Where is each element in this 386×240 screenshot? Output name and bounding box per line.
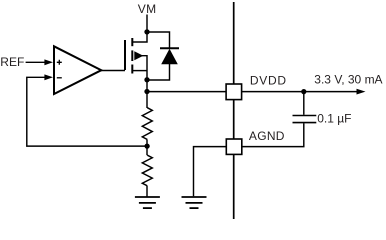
svg-text:AGND: AGND	[249, 129, 285, 143]
svg-text:VM: VM	[138, 2, 157, 16]
svg-text:DVDD: DVDD	[250, 74, 287, 88]
svg-text:3.3 V, 30 mA: 3.3 V, 30 mA	[314, 72, 382, 86]
svg-text:REF: REF	[0, 55, 24, 69]
svg-text:0.1 µF: 0.1 µF	[317, 112, 351, 126]
